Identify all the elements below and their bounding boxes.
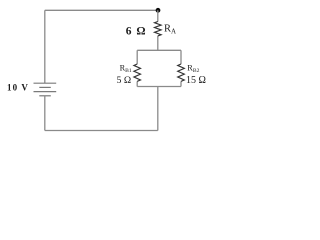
battery V1 plate short bottom	[39, 95, 51, 97]
resistor RB2 zigzag	[178, 64, 185, 81]
wire left vertical upper	[44, 10, 46, 83]
battery V1 plate long lower	[34, 91, 57, 93]
battery V1 plate short	[39, 86, 51, 88]
wire stub below resistor RA	[157, 36, 159, 50]
svg-text:15 Ω: 15 Ω	[186, 75, 206, 86]
battery V1 plate long top	[34, 82, 57, 84]
wire stub above resistor RB1	[136, 50, 138, 64]
resistor RB1 zigzag	[134, 64, 141, 81]
node A junction dot	[156, 8, 161, 13]
wire stub above resistor RB2	[180, 50, 182, 64]
wire parallel top rail	[137, 49, 181, 51]
svg-text:10 V: 10 V	[7, 82, 29, 92]
wire bottom horizontal	[45, 130, 158, 132]
svg-text:5 Ω: 5 Ω	[117, 75, 132, 86]
svg-text:6 Ω: 6 Ω	[126, 26, 147, 38]
wire left vertical lower	[44, 96, 46, 131]
wire center vertical lower	[157, 87, 159, 131]
svg-text:RB2: RB2	[187, 63, 199, 74]
wire top horizontal	[45, 9, 158, 11]
resistor RA zigzag	[155, 22, 162, 36]
svg-text:RB1: RB1	[120, 63, 132, 74]
wire parallel bottom rail	[137, 86, 181, 88]
wire stub above resistor RA	[157, 10, 159, 21]
wire stub below resistor RB1	[136, 81, 138, 86]
wire stub below resistor RB2	[180, 81, 182, 86]
svg-text:RA: RA	[164, 24, 176, 36]
